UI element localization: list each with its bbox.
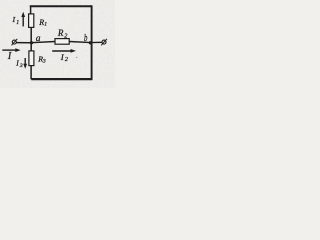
wire: bottom horizontal [31, 78, 92, 80]
resistor R1 (vertical box) [29, 14, 34, 28]
label R2 [57, 28, 67, 39]
label I3 [15, 59, 23, 70]
svg-text:3: 3 [19, 63, 23, 69]
terminal (right, circle with slash) [101, 39, 107, 46]
label I2 [60, 52, 68, 63]
wire: top horizontal from R1 branch to right side [30, 5, 92, 7]
current arrow I2 (pointing right, below R2) [52, 49, 76, 53]
svg-text:1: 1 [16, 20, 19, 26]
wire: node a to R2 box [31, 42, 55, 43]
svg-text:I: I [7, 51, 12, 62]
resistor R2 (horizontal box) [55, 39, 69, 45]
wire: R3 bottom lead down to bottom wire [30, 66, 32, 80]
svg-text:R: R [57, 28, 64, 38]
label R1 [38, 18, 47, 27]
wire: node a down to R3 box [30, 43, 32, 51]
node b (junction dot) [89, 41, 92, 44]
wire: left terminal to node a [16, 42, 31, 44]
scan speck (dot after I2 label) [76, 57, 77, 58]
svg-text:2: 2 [64, 32, 67, 39]
wire: R2 box to node b and right terminal [69, 42, 102, 43]
label R3 [37, 55, 46, 65]
svg-text:I: I [12, 15, 16, 24]
svg-text:I: I [15, 59, 19, 68]
terminal (left, circle with slash) [12, 39, 18, 46]
label I1 [12, 15, 20, 26]
paper background [0, 0, 115, 88]
wire: R1 bottom lead down to node a [30, 27, 32, 42]
svg-text:1: 1 [44, 21, 47, 27]
current arrow I1 (pointing up) [21, 12, 25, 27]
wire: R1 top lead (top wire down to R1 box) [30, 6, 32, 15]
resistor R3 (vertical box) [29, 51, 34, 66]
svg-text:b: b [84, 33, 87, 44]
current arrow I (input, pointing right) [2, 48, 20, 52]
wire: right vertical side [91, 5, 93, 80]
current arrow I3 (pointing down) [23, 58, 27, 69]
node a (junction dot) [30, 41, 33, 44]
svg-text:2: 2 [65, 57, 68, 63]
svg-text:R: R [38, 18, 44, 27]
svg-text:3: 3 [42, 59, 46, 65]
